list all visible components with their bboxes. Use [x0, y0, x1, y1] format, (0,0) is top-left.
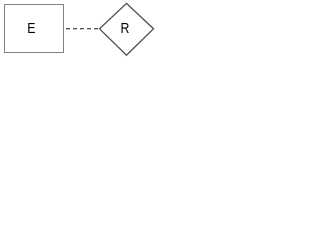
- entity E (rectangle): [5, 5, 64, 53]
- relationship R (diamond): [100, 3, 154, 55]
- wire (dashed connector): [63, 28, 100, 30]
- svg-text:E: E: [27, 20, 35, 36]
- svg-text:R: R: [121, 20, 130, 36]
